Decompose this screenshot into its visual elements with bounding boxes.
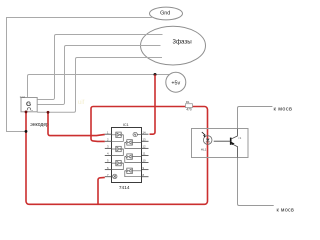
svg-text:к мосв: к мосв [277,208,295,214]
phototransistor emitter with arrow [231,143,238,157]
gate C (pins 5-6) [112,160,124,169]
wire encoder channel B to ellipse [37,46,160,105]
wire R1 through LED down to ground bus and encoder gnd pin [26,107,208,205]
gate A (pins 1-2) [112,132,124,141]
encoder box [21,98,37,112]
pin 14 [142,133,149,135]
gate B (pins 3-4) [112,146,124,155]
wire +5v to IC pin 2 [91,107,105,142]
wire encoder signal to IC pin 1 [48,112,105,135]
optocoupler box [192,129,249,158]
svg-text:7414: 7414 [119,185,130,191]
wire +5v red vertical to IC pin 14 [150,75,156,135]
svg-text:+5v: +5v [171,81,180,87]
svg-text:13: 13 [143,138,147,142]
gate E (pins 11-10) [125,154,142,163]
svg-text:к мосв: к мосв [274,106,293,112]
svg-text:14: 14 [143,130,147,134]
wire collector to output [238,107,273,129]
pin 6 [105,169,112,171]
svg-text:12: 12 [143,145,147,149]
pin 11 [142,155,149,157]
Gnd ellipse [150,7,183,20]
svg-text:10: 10 [143,159,147,163]
pin 4 [105,155,112,157]
gate D (pins 9-8) [125,168,142,177]
power symbol near pin 14 [133,132,142,136]
svg-text:энкодер: энкодер [30,122,49,128]
pin 1 [105,133,112,135]
phototransistor base bar [230,138,232,145]
svg-text:R1: R1 [186,100,190,104]
pin 9 [142,169,149,171]
optocoupler LED circle [203,136,212,145]
svg-text:Gnd: Gnd [160,11,170,17]
gate F (pins 13-12) [125,140,142,149]
+5v supply circle [166,72,186,92]
wire encoder top pin to +5v [28,75,170,98]
svg-text:11: 11 [143,152,146,156]
pin 10 [142,162,149,164]
svg-text:Gnd: Gnd [20,95,25,99]
pin 3 [105,147,112,149]
3-phase ellipse [141,26,206,65]
pin 13 [142,140,149,142]
junction dot encoder gnd pin [25,111,28,114]
wire +5v to R1 [93,106,186,108]
resistor R1 [186,104,193,108]
phototransistor base lead [214,140,231,142]
pin 5 [105,162,112,164]
IC1 op-amp style DIP body [112,128,142,183]
pin 8 [142,176,149,178]
wire encoder signal to ellipse [37,58,162,113]
junction dot gnd frame tee [25,130,28,133]
wire encoder channel A to ellipse [37,35,162,100]
wire emitter to output [238,158,274,206]
optocoupler LED diode [206,139,210,142]
wire gnd bus to IC pin 7 [98,177,105,204]
junction dot encoder signal tap [47,111,50,114]
svg-text:IC1: IC1 [123,123,129,127]
junction dot +5v net [154,73,157,76]
phototransistor collector [231,129,238,139]
svg-text:3фазы: 3фазы [173,39,193,46]
optocoupler light arrow [202,132,205,135]
svg-text:т1: т1 [238,136,241,140]
pin 7 [105,176,112,178]
svg-text:G: G [26,101,31,108]
svg-text:HL1: HL1 [201,148,207,152]
gnd symbol near pin 7 [113,174,117,178]
pin 12 [142,147,149,149]
svg-text:uif: uif [78,100,85,106]
svg-text:470: 470 [186,108,192,112]
encoder squiggle symbol [27,108,30,111]
wire gnd frame (Gnd ellipse to encoder gnd pin) [7,18,152,132]
pin 2 [105,140,112,142]
